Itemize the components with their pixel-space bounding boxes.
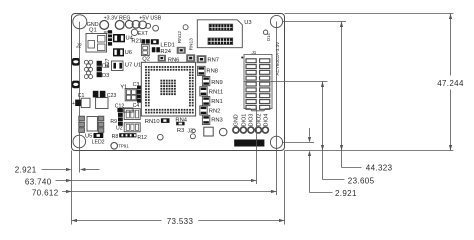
via middle [158,134,164,140]
IC U2 upper [124,109,140,120]
resistor network RN8 [198,66,205,75]
svg-text:R24: R24 [160,49,171,55]
svg-text:63.740: 63.740 [25,177,52,186]
svg-text:U7: U7 [125,62,132,68]
svg-text:+: + [72,101,75,107]
LED LED1 [151,39,159,44]
extension line top hole center [283,21,346,23]
J1 pin1 mark [241,57,243,59]
U1 BGA perimeter pads [145,66,194,113]
mounting hole H3 bottom-right [270,136,282,148]
svg-text:R12: R12 [137,135,147,141]
svg-text:44.323: 44.323 [366,164,393,173]
jumper ring A [125,20,133,28]
extension line J1 feature [244,81,328,83]
transistor Q1 [86,34,107,53]
resistor network RN9 [202,77,209,86]
resistor network RN11 [200,87,207,96]
mounting hole H4 bottom-left [73,135,86,148]
resistor R2 pads [108,30,112,45]
jumper pad D [146,24,151,29]
svg-text:LED2: LED2 [92,139,105,145]
crystal Y1 [125,89,137,101]
diode D3 pads [97,72,102,77]
svg-text:LED1: LED1 [160,42,175,48]
test point TP91 ring [111,143,118,150]
svg-text:DIO2: DIO2 [256,114,262,127]
resistor R9 pads [118,109,123,113]
resistor R24 [152,47,156,52]
svg-text:70.612: 70.612 [32,188,59,197]
svg-text:ACY6002A-3.3V: ACY6002A-3.3V [275,41,280,76]
LED LED2 [94,133,104,138]
svg-text:U2: U2 [116,125,123,131]
svg-text:RN1: RN1 [211,99,223,105]
svg-text:DIO3: DIO3 [249,114,255,127]
svg-text:Q1: Q1 [89,28,97,34]
svg-text:GND: GND [234,114,240,126]
test point GND ring [100,21,109,30]
resistor network RN10 pack [161,118,170,123]
svg-text:U1: U1 [134,62,141,68]
U3 pin grid lower [208,38,233,45]
svg-text:RN8: RN8 [206,69,218,75]
resistor network RN13 pack [186,54,195,62]
svg-text:RN2: RN2 [209,108,221,114]
extension line through right holes [276,22,278,196]
svg-text:DIO4: DIO4 [264,114,270,127]
capacitor C2 body [96,98,108,109]
resistor network RN1 [202,97,209,106]
svg-text:RN12: RN12 [177,31,183,44]
svg-text:2.921: 2.921 [335,189,357,198]
dimension 73.533 [72,220,162,222]
svg-text:DIO1: DIO1 [241,114,247,127]
svg-text:EXT: EXT [138,31,149,37]
resistor network RN12 pack [177,47,186,54]
regulator U5 center pad [87,117,97,132]
extension line 63.740 feature [256,107,258,184]
svg-text:73.533: 73.533 [167,217,194,226]
resistor network RN2 [200,106,207,115]
dimension 23.605 [322,82,324,151]
svg-text:R3: R3 [177,128,184,134]
regulator U5 pads [79,116,85,121]
black polarity bar [234,140,264,147]
connector U3 outline [197,20,242,48]
extension line bottom hole center [283,142,314,144]
diode D14 pad [263,30,267,34]
svg-text:RN9: RN9 [211,80,223,86]
resistor network RN4 pack [176,122,184,126]
IC U2 lower [124,123,140,132]
svg-text:Q2: Q2 [142,57,150,63]
via large [219,128,227,136]
resistor R8 [119,133,136,137]
test point TP3 [153,25,159,31]
resistor network RN3 [202,115,209,124]
capacitor C23 pads [93,91,99,98]
svg-text:RN10: RN10 [145,119,160,125]
svg-text:RN11: RN11 [209,90,223,96]
dimension 2.921 right [309,128,311,137]
IC U6 [113,48,124,56]
jumper ring B [132,20,140,28]
resistor network RN7 pack [197,55,207,63]
connector J2 pad 1 [72,58,80,66]
connector J2 pad 2 [72,81,80,89]
capacitor C12 pads [117,108,122,112]
svg-text:R6: R6 [104,31,109,35]
diode D4 pads [97,61,102,66]
extension line board left edge [71,151,73,225]
capacitor C3 pads [137,86,141,90]
microcontroller U1 BGA body [141,62,195,116]
svg-text:23.605: 23.605 [348,176,375,185]
svg-text:C23: C23 [107,93,117,99]
jumper ring C [139,21,147,29]
mounting hole H1 top-left [73,15,87,29]
svg-text:U6: U6 [125,50,132,56]
U1 thermal pad grid [160,80,175,95]
extension line board top edge right [285,13,454,15]
svg-text:D4: D4 [102,64,110,70]
extension line board right edge [284,151,286,225]
svg-text:47.244: 47.244 [437,79,464,88]
svg-text:RN7: RN7 [207,57,219,63]
capacitor C1 pad [75,100,81,106]
J1 pads [246,59,256,63]
mounting hole H2 top-right [270,15,282,27]
test point near RN12 [183,25,188,30]
dimension 44.323 [341,22,343,151]
svg-text:J2: J2 [75,44,82,50]
svg-text:R9: R9 [110,119,117,125]
connector J1 outline [244,55,272,111]
PCB board outline [72,14,285,151]
test point +3.3V ring [115,21,124,30]
svg-text:RN13: RN13 [188,38,194,51]
capacitor C1 body [81,98,90,107]
DIO pads [233,127,239,133]
connector J3 pad 1 [192,129,196,133]
IC U7 [112,61,124,71]
pad square [204,127,213,136]
connector J3 pad 2 [190,134,195,139]
svg-text:TP91: TP91 [118,144,129,149]
extension line board bottom edge right [285,150,454,152]
svg-text:RN3: RN3 [211,118,223,124]
dimension 47.244 [450,14,452,76]
U3 pin grid upper [209,24,233,30]
svg-text:U3: U3 [244,20,251,26]
svg-text:2.921: 2.921 [15,165,37,174]
svg-text:R8: R8 [112,134,119,140]
via cluster [84,60,88,64]
jumper pad EXT [131,29,137,35]
svg-text:C4: C4 [133,103,140,109]
transistor Q2 [141,45,149,56]
svg-text:+3.3V REG: +3.3V REG [104,15,131,21]
svg-text:R21: R21 [131,39,142,45]
IC U4 [113,34,125,42]
resistor network RN6 pack [158,55,166,62]
resistor R21 pads [142,39,146,43]
svg-text:D3: D3 [102,73,109,79]
extension line through left holes [79,22,81,173]
svg-text:D14: D14 [266,33,271,41]
